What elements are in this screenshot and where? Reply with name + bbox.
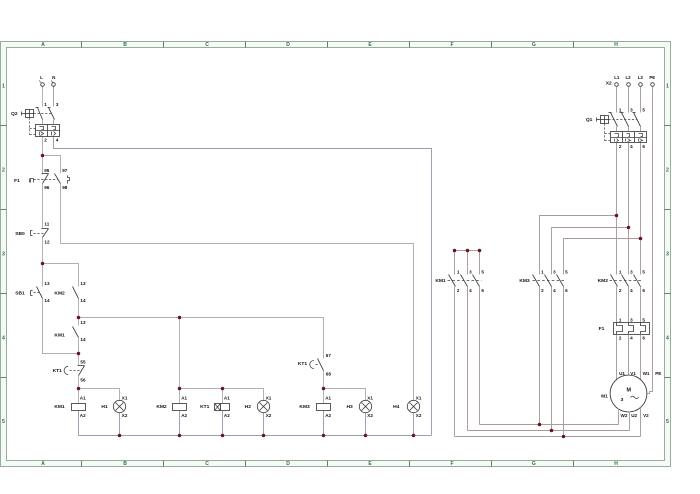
svg-text:H: H [614,461,618,467]
svg-text:KM1: KM1 [435,278,446,284]
svg-text:B: B [123,461,127,467]
designator label Q1 [586,117,593,123]
pin labels H3 X1/X2 [367,396,373,419]
svg-text:6: 6 [642,336,645,341]
svg-text:5: 5 [481,270,484,275]
pin labels Q2 2/4 [44,138,59,143]
wire KM3 coil A1 stub [323,389,325,404]
svg-text:X2: X2 [122,413,128,418]
svg-text:F1: F1 [599,326,605,332]
svg-text:KM3: KM3 [299,404,310,410]
pin labels KT1 67/68 [326,353,332,376]
designator label SB1 [15,290,25,296]
wire KM1 aux top stub [78,318,80,326]
wire branch L3 to KM3 pole 5 [564,239,641,275]
timer contact KT1 67-68 (delayed NO) [310,359,324,371]
junction KM2-aux output node [77,316,81,320]
svg-text:56: 56 [80,378,86,383]
wire node to lamp H1 [79,389,120,401]
junction H3 on N rail [364,434,368,438]
wire L3 phase X2 to Q1 [640,87,642,113]
svg-text:X2: X2 [367,413,373,418]
svg-text:F: F [450,461,453,467]
svg-text:5: 5 [2,419,5,425]
svg-text:A2: A2 [181,413,187,418]
wire KM1 pole 1 to V2 line [454,287,456,437]
wire lamp H1 X2 to N rail [119,413,121,436]
junction KM1 coil feed node [77,387,81,391]
designator label KM1 aux [54,332,65,338]
svg-text:A2: A2 [80,413,86,418]
svg-text:3: 3 [630,270,633,275]
contactor coil KM1 [72,404,86,411]
svg-text:PE: PE [655,371,661,376]
svg-text:5: 5 [565,270,568,275]
svg-text:B: B [123,42,127,48]
wire KM3 coil A2 to N rail [323,411,325,436]
svg-text:H1: H1 [101,404,108,410]
motor M1 (3~) [610,375,647,412]
svg-text:2: 2 [2,168,5,174]
wire SB1 bottom to KM1 aux bottom node [43,299,79,354]
svg-text:3: 3 [621,397,624,403]
svg-text:1: 1 [666,84,669,90]
junction H4 on N rail [412,434,416,438]
svg-text:F: F [450,42,453,48]
svg-text:L: L [40,75,43,80]
wire node to KM2 aux column [43,264,79,287]
svg-text:14: 14 [44,298,50,303]
junction H2 on N rail [262,434,266,438]
pin labels KM1 2/4/6 [457,288,485,293]
svg-text:2: 2 [44,138,47,143]
svg-text:1: 1 [619,108,622,113]
star bar junction KM1 pole 1 [453,249,457,253]
pin labels F1 95/97 [44,168,68,173]
svg-text:C: C [205,42,209,48]
wire motor W2 stub [618,409,620,425]
wire F1 to motor U1 [616,335,618,381]
contactor coil KM3 [317,404,331,411]
svg-text:14: 14 [80,298,86,303]
pin labels H1 X1/X2 [122,396,128,419]
junction KT1 coil feed [221,387,225,391]
pin labels motor W2/U2/V2 [621,413,650,418]
pushbutton SB0 (NC stop) [31,229,49,238]
designator label F1 power [599,326,605,332]
svg-text:68: 68 [326,372,332,377]
pin labels KM3 1/3/5 [541,270,568,275]
wire L1 Q1 to KM2 pole 1 [616,127,618,275]
svg-text:67: 67 [326,353,332,358]
designator label KT1 contact [53,368,63,374]
breaker Q2 [22,108,60,137]
svg-text:6: 6 [565,288,568,293]
wire KT1 56 to KM1 coil node [78,376,80,389]
svg-text:98: 98 [62,185,68,190]
pin labels SB1 13/14 [44,281,50,303]
wire V2 line to KM1 pole 1 [455,436,641,438]
pin labels KM2 A1/A2 [181,396,187,419]
designator label SB0 [15,231,25,237]
junction KM2 coil node [178,387,182,391]
wire KM1 pole 3 to U2 line [467,287,469,431]
timer contact KT1 55-56 (delayed NC) [64,366,84,376]
junction rail / KM2 coil feed [178,316,182,320]
svg-text:4: 4 [56,138,59,143]
svg-text:D: D [286,461,290,467]
svg-text:SB0: SB0 [15,231,25,237]
pin labels KT1 55/56 [80,359,86,382]
auxiliary contact KM1 13-14 [73,327,79,338]
svg-text:13: 13 [80,320,86,325]
designator label KM3 main contacts [519,278,530,284]
junction H1 on N rail [118,434,122,438]
svg-text:H: H [614,42,618,48]
svg-text:11: 11 [44,222,49,227]
indicator lamp H2 [257,400,269,412]
svg-text:H3: H3 [346,404,353,410]
svg-text:U1: U1 [619,371,625,376]
svg-text:1: 1 [2,84,5,90]
terminal X2:L3 [638,75,644,86]
svg-text:2: 2 [619,288,622,293]
svg-text:H2: H2 [245,404,252,410]
pin labels KM2 13/14 [80,281,86,303]
wire lamp H3 X2 to N rail [365,413,367,436]
svg-text:L1: L1 [614,75,620,80]
junction KM1-aux bottom node [77,352,81,356]
svg-text:5: 5 [666,419,669,425]
svg-text:KM3: KM3 [519,278,530,284]
svg-text:G: G [532,42,536,48]
pin labels motor U1/V1/W1/PE [619,371,661,376]
wire KM3 pole 5 down to V2 line [563,287,565,437]
designator label KM1 coil [54,404,65,410]
svg-text:4: 4 [469,288,472,293]
wire branch to F1 pin 97 [43,156,61,174]
svg-text:C: C [205,461,209,467]
designator label X2 [606,81,612,87]
svg-text:97: 97 [62,168,68,173]
svg-text:L3: L3 [638,75,644,80]
wire KT1 68 to KM3 coil node [323,371,325,389]
junction L2 branch to KM3 [627,226,631,230]
svg-text:12: 12 [44,240,50,245]
svg-text:Q1: Q1 [586,117,593,123]
wire L phase from terminal L through Q2 down to F1 [42,86,44,174]
designator label M1 [601,393,608,399]
svg-text:N: N [52,75,55,80]
pin labels F1 1/3/5 [619,318,646,323]
pin labels Q1 2/4/6 [619,144,646,149]
svg-text:KM1: KM1 [54,404,65,410]
svg-text:W1: W1 [643,371,650,376]
pin labels KM1 A1/A2 [80,396,86,419]
svg-text:1: 1 [619,270,622,275]
wire KM2 aux bottom to node [78,299,80,318]
svg-text:A1: A1 [80,396,86,401]
terminal L [40,75,45,86]
wire L3 Q1 to KM2 pole 5 [640,127,642,275]
svg-text:5: 5 [642,270,645,275]
svg-text:A1: A1 [224,396,230,401]
wire star shorting bar [455,250,480,252]
svg-text:2: 2 [666,168,669,174]
designator label KT1 coil [200,404,210,410]
contactor KM3 main contacts (delta) [533,275,565,287]
junction KM3 on N rail [322,434,326,438]
pin labels KT1 A1/A2 [224,396,230,419]
junction KM3 coil feed node [322,387,326,391]
svg-text:G: G [532,461,536,467]
wire KM1 coil A1 stub [78,389,80,404]
svg-text:M1: M1 [601,393,608,399]
designator label KM2 aux [54,291,65,297]
wire F1 96 to SB0 11 [42,184,44,229]
svg-text:A: A [41,42,45,48]
wire motor V2 stub [640,408,642,437]
wire W2 line to KM1 pole 5 [480,424,619,426]
junction KT1 on N rail [221,434,225,438]
wire N from terminal N to Q2 [53,86,55,107]
pin labels H4 X1/X2 [416,396,422,419]
wire rail to KM2 coil and KT1 contact [79,318,324,359]
svg-text:U2: U2 [631,413,637,418]
designator label KT1 contact 67-68 [298,361,308,367]
svg-text:5: 5 [642,318,645,323]
svg-text:6: 6 [642,144,645,149]
overload relay contact F1 95-96 / 97-98 [30,174,70,184]
wire SB0 12 down to node [42,238,44,264]
wire KM2 coil column from rail [179,318,181,389]
svg-text:6: 6 [642,288,645,293]
pin labels KM3 2/4/6 [541,288,568,293]
star bar junction KM1 pole 3 [466,249,470,253]
junction KM2 on N rail [178,434,182,438]
svg-text:H4: H4 [393,404,400,410]
svg-text:96: 96 [44,185,50,190]
star bar junction KM1 pole 5 [478,249,482,253]
timer relay coil KT1 [215,404,230,411]
designator label KM1 main contacts [435,278,446,284]
wire KM2 coil A1 stub [179,389,181,404]
svg-text:55: 55 [80,359,86,364]
svg-text:3: 3 [2,251,5,257]
svg-text:X2: X2 [606,81,612,87]
wire KM2 coil A2 to N rail [179,411,181,436]
wire L2 Q1 to KM2 pole 3 [628,127,630,275]
breaker Q1 [597,113,647,143]
designator label H3 [346,404,353,410]
junction U2 / KM3 pole 3 [550,429,554,433]
indicator lamp H3 [359,400,371,412]
wire branch L2 to KM3 pole 3 [552,228,629,275]
designator label KM2 main contacts [598,278,609,284]
svg-text:KM2: KM2 [54,291,65,297]
svg-text:4: 4 [630,288,633,293]
wire lamp H2 X2 to N rail [263,413,265,436]
designator label KM2 coil [156,404,167,410]
svg-text:1: 1 [457,270,460,275]
svg-text:95: 95 [44,168,50,173]
svg-text:1: 1 [619,318,622,323]
contactor coil KM2 [173,404,187,411]
wire KM2 outputs to F1 [617,287,641,323]
svg-text:2: 2 [619,144,622,149]
pin labels F1 96/98 [44,185,68,190]
svg-text:X1: X1 [367,396,373,401]
pin labels SB0 11/12 [44,222,50,245]
designator label KM3 coil [299,404,310,410]
svg-text:3: 3 [630,318,633,323]
contactor KM2 main contacts (line) [610,275,643,287]
svg-text:D: D [286,42,290,48]
svg-text:Q2: Q2 [11,111,18,117]
svg-text:1: 1 [541,270,544,275]
auxiliary contact KM2 13-14 [73,287,79,299]
svg-text:3: 3 [630,108,633,113]
wire L2 phase X2 to Q1 [628,87,630,113]
wire lamp H4 X2 to N rail [413,413,415,436]
wire N net: Q2 pin4 down, right and down to bottom rail [54,120,432,436]
junction L1 branch to KM3 [615,214,619,218]
svg-text:KT1: KT1 [298,361,308,367]
svg-text:3: 3 [666,251,669,257]
pin labels Q1 1/3/5 [619,108,646,113]
svg-text:KT1: KT1 [200,404,210,410]
wire KT1 coil A1 stub [222,389,224,404]
pin labels KM3 A1/A2 [325,396,331,419]
svg-text:L2: L2 [625,75,631,80]
svg-text:2: 2 [457,288,460,293]
svg-text:2: 2 [619,336,622,341]
wire KM1 aux bottom [78,338,80,354]
pin labels F1 2/4/6 [619,336,646,341]
svg-text:A2: A2 [224,413,230,418]
wire F1 to motor W1 [640,335,642,380]
svg-text:4: 4 [630,144,633,149]
junction W2 / KM3 pole 1 [538,423,542,427]
svg-text:PE: PE [649,75,655,80]
wire node to lamp H3 [324,389,366,401]
svg-text:V2: V2 [643,413,649,418]
svg-text:4: 4 [630,336,633,341]
wire KT1 coil A2 to N rail [222,411,224,436]
svg-text:13: 13 [80,281,86,286]
indicator lamp H4 [407,400,419,412]
svg-text:KM2: KM2 [598,278,609,284]
wire N bottom rail [79,435,432,437]
svg-text:X1: X1 [416,396,422,401]
svg-text:V1: V1 [630,371,636,376]
terminal X2:L1 [614,75,620,86]
svg-text:13: 13 [44,281,50,286]
wire L1 phase X2 to Q1 [616,87,618,113]
svg-text:4: 4 [666,335,669,341]
svg-text:A: A [41,461,45,467]
wire node to KT1 coil and lamp H2 [180,389,264,401]
pin labels Q2 1/3 [44,102,59,107]
svg-text:4: 4 [553,288,556,293]
svg-text:KT1: KT1 [53,368,63,374]
svg-text:KM1: KM1 [54,332,65,338]
svg-text:A1: A1 [181,396,187,401]
terminal X2:L2 [625,75,631,86]
svg-text:SB1: SB1 [15,290,25,296]
wire F1 98 to lamp H4 [61,184,414,401]
svg-text:M: M [626,387,631,393]
terminal X2:PE [649,75,655,86]
svg-text:2: 2 [541,288,544,293]
designator label Q2 [11,111,18,117]
designator label H2 [245,404,252,410]
wire KM3 pole 1 down to W2 line [539,287,541,425]
junction node SB1/KM2 top [41,262,45,266]
designator label F1 [14,178,20,184]
thermal overload relay F1 (power) [614,323,650,335]
contactor KM1 main contacts (star) [448,275,482,287]
svg-text:A1: A1 [325,396,331,401]
wire KM1 pole stubs from star bar [455,251,480,275]
pin labels KM1 13/14 [80,320,86,342]
wire U2 line to KM1 pole 3 [468,430,630,432]
svg-text:F1: F1 [14,178,20,184]
svg-text:X2: X2 [266,413,272,418]
wire PE conductor to motor [648,87,653,394]
terminal N [52,75,56,86]
svg-text:X2: X2 [416,413,422,418]
svg-text:6: 6 [481,288,484,293]
wire F1 to motor V1 [628,335,630,376]
wire KM1 coil A2 to N rail [78,411,80,436]
svg-text:1: 1 [44,102,47,107]
svg-text:3: 3 [553,270,556,275]
svg-text:3: 3 [469,270,472,275]
pushbutton SB1 (NO start) [31,287,43,299]
designator label H1 [101,404,108,410]
svg-text:3: 3 [56,102,59,107]
pin labels KM1 1/3/5 [457,270,485,275]
wire KM1 pole 5 to W2 line [479,287,481,425]
indicator lamp H1 [113,400,125,412]
wire motor U2 stub [629,412,631,431]
wire node to KT1 contact 55 [78,354,80,366]
pin labels KM2 1/3/5 [619,270,646,275]
wire KM3 pole 3 down to U2 line [551,287,553,431]
junction L3 branch to KM3 [639,237,643,241]
svg-text:14: 14 [80,337,86,342]
wire branch L1 to KM3 pole 1 [540,216,617,275]
svg-text:KM2: KM2 [156,404,167,410]
svg-text:W2: W2 [621,413,628,418]
svg-text:X1: X1 [266,396,272,401]
junction node after Q2 pin 2 [41,154,45,158]
svg-text:X1: X1 [122,396,128,401]
svg-text:4: 4 [2,335,5,341]
pin labels H2 X1/X2 [266,396,272,419]
pin labels KM2 2/4/6 [619,288,646,293]
svg-text:5: 5 [642,108,645,113]
junction V2 / KM3 pole 5 [562,435,566,439]
wire SB1 top stub [42,264,44,287]
designator label H4 [393,404,400,410]
svg-text:A2: A2 [325,413,331,418]
